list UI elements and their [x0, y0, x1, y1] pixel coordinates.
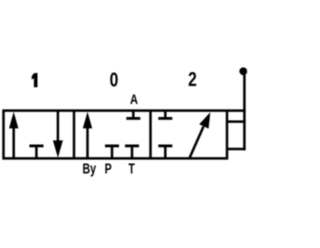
position 2 blocked port T	[158, 146, 172, 159]
position 2 diagonal flow arrow P to A	[190, 112, 211, 158]
actuator middle rung	[227, 120, 246, 123]
svg-text:0: 0	[110, 69, 119, 92]
svg-text:By: By	[82, 161, 96, 177]
valve body (3-position envelope)	[4, 111, 228, 159]
position 2 blocked port A (hanging)	[158, 111, 172, 119]
position 0 blocked port P	[105, 146, 119, 159]
divider between position 1 and 0	[73, 111, 76, 159]
hand lever knob	[239, 67, 247, 75]
actuator top rail (top edge extension)	[227, 109, 246, 112]
position 1 blocked port P	[29, 146, 43, 159]
actuator bottom rung	[227, 148, 246, 151]
svg-text:T: T	[128, 161, 135, 177]
svg-text:A: A	[130, 92, 138, 108]
position 1 bypass flow arrow up	[9, 112, 18, 159]
position 0 bypass flow arrow up	[83, 112, 92, 159]
label position 1	[32, 73, 38, 87]
divider between position 0 and 2	[149, 111, 152, 159]
hand lever shaft	[243, 71, 246, 150]
position 0 blocked port A (hanging)	[126, 111, 140, 119]
position 1 flow arrow down (A to T)	[53, 111, 63, 158]
svg-text:P: P	[105, 161, 113, 177]
position 0 blocked port T	[125, 146, 139, 159]
svg-text:2: 2	[188, 68, 197, 91]
